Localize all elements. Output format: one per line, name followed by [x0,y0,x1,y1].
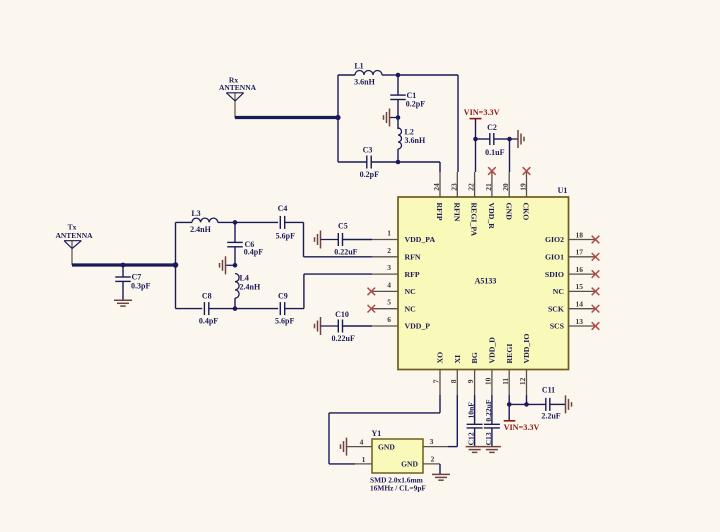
svg-text:Y1: Y1 [372,429,382,438]
svg-text:C2: C2 [487,123,497,132]
svg-text:3: 3 [430,437,434,446]
svg-text:GND: GND [504,203,513,221]
svg-text:24: 24 [432,183,441,191]
svg-text:0.2pF: 0.2pF [360,170,379,179]
svg-text:XO: XO [436,352,445,364]
svg-text:4: 4 [360,437,364,446]
svg-text:NC: NC [405,304,417,313]
svg-text:SCS: SCS [550,322,564,331]
svg-text:REGI: REGI [505,344,514,364]
svg-text:2: 2 [431,455,435,464]
svg-text:0.3pF: 0.3pF [131,282,150,291]
svg-text:3.6nH: 3.6nH [405,136,426,145]
svg-text:9: 9 [466,379,475,383]
svg-text:VIN=3.3V: VIN=3.3V [464,108,500,117]
svg-text:NC: NC [405,287,417,296]
svg-text:VIN=3.3V: VIN=3.3V [504,423,540,432]
svg-text:4: 4 [387,280,391,289]
svg-text:3: 3 [387,263,391,272]
svg-text:C8: C8 [202,292,212,301]
svg-text:L1: L1 [354,62,363,71]
svg-text:5.6pF: 5.6pF [276,231,295,240]
svg-text:5: 5 [387,298,391,307]
svg-text:0.22uF: 0.22uF [334,247,357,256]
svg-text:0.4pF: 0.4pF [244,248,263,257]
svg-text:C9: C9 [278,292,288,301]
svg-text:2.2uF: 2.2uF [541,412,560,421]
svg-text:12: 12 [518,377,527,385]
svg-text:2.4nH: 2.4nH [190,225,211,234]
svg-text:VDD_R: VDD_R [487,203,496,230]
svg-text:5.6pF: 5.6pF [275,317,294,326]
svg-text:0.4pF: 0.4pF [199,317,218,326]
svg-text:10nF: 10nF [467,402,476,419]
svg-text:C4: C4 [278,204,288,213]
svg-text:GIO1: GIO1 [545,252,564,261]
svg-text:NC: NC [553,287,565,296]
svg-text:6: 6 [387,315,391,324]
svg-text:ANTENNA: ANTENNA [55,231,93,240]
svg-text:L4: L4 [240,274,249,283]
svg-text:VDD_IO: VDD_IO [522,334,531,364]
svg-text:XI: XI [453,355,462,364]
svg-text:1: 1 [387,228,391,237]
svg-text:13: 13 [576,317,584,326]
svg-text:GND: GND [401,459,418,468]
svg-text:C13: C13 [484,432,493,445]
svg-text:RFP: RFP [405,270,420,279]
svg-text:16MHz / CL=9pF: 16MHz / CL=9pF [370,483,426,492]
svg-text:8: 8 [449,379,458,383]
svg-text:C12: C12 [467,432,476,445]
svg-text:U1: U1 [558,186,568,195]
svg-text:C10: C10 [335,310,349,319]
svg-text:C3: C3 [363,146,373,155]
svg-text:0.22uF: 0.22uF [484,399,493,422]
svg-text:0.1uF: 0.1uF [485,148,504,157]
svg-text:2.4nH: 2.4nH [240,283,261,292]
svg-text:14: 14 [576,299,584,308]
svg-text:BG: BG [470,352,479,363]
svg-text:15: 15 [576,282,584,291]
svg-text:ANTENNA: ANTENNA [219,83,257,92]
svg-text:20: 20 [501,183,510,191]
svg-text:C7: C7 [132,273,142,282]
svg-text:VDD_D: VDD_D [488,337,497,364]
svg-text:19: 19 [519,183,528,191]
svg-text:C11: C11 [542,386,555,395]
svg-text:A5133: A5133 [475,277,497,286]
svg-text:2: 2 [387,246,391,255]
svg-text:REGI_PA: REGI_PA [470,203,479,237]
svg-text:RFIP: RFIP [435,203,444,221]
svg-text:GIO2: GIO2 [545,235,564,244]
svg-text:VDD_P: VDD_P [405,322,431,331]
svg-text:21: 21 [484,183,493,191]
svg-text:L3: L3 [191,209,200,218]
svg-text:C5: C5 [338,222,348,231]
svg-text:CKO: CKO [522,203,531,221]
svg-text:GND: GND [378,442,395,451]
svg-text:VDD_PA: VDD_PA [405,235,436,244]
svg-text:16: 16 [576,265,584,274]
svg-text:10: 10 [484,377,493,385]
svg-text:0.22uF: 0.22uF [332,334,355,343]
svg-text:17: 17 [576,248,584,257]
svg-text:11: 11 [501,378,510,385]
svg-text:0.2pF: 0.2pF [406,99,425,108]
svg-text:SCK: SCK [548,304,564,313]
svg-text:RFIN: RFIN [452,203,461,222]
svg-text:18: 18 [576,230,584,239]
svg-text:7: 7 [432,379,441,383]
svg-text:22: 22 [467,183,476,191]
svg-text:23: 23 [449,183,458,191]
svg-text:1: 1 [362,455,366,464]
svg-text:RFN: RFN [405,252,421,261]
svg-text:SDIO: SDIO [545,270,564,279]
svg-text:3.6nH: 3.6nH [354,78,375,87]
